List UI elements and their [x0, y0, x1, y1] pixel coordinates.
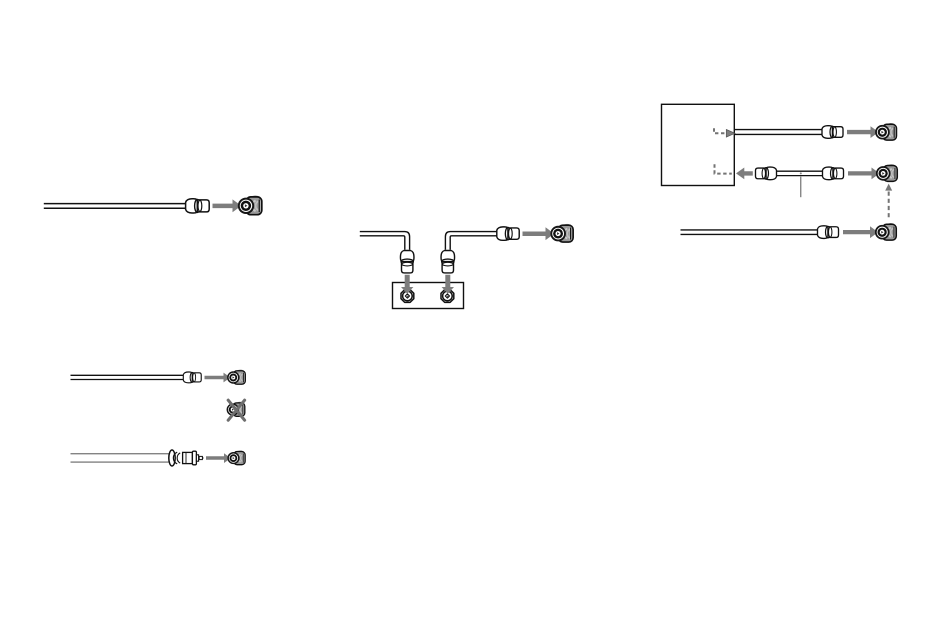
- socket: row 1 socket (top right): [875, 124, 896, 140]
- dashed line: inside box bottom L (top right): [715, 164, 732, 173]
- wire: aerial cable 1 (top left): [44, 204, 186, 209]
- arrow: into box arrow (top right row 2): [736, 168, 753, 180]
- socket: row 2 socket (top right): [876, 165, 897, 181]
- plug: aerial plug 1 (top left): [186, 199, 210, 213]
- arrow: row 2 connect arrow (top right): [848, 168, 880, 180]
- plug: old-style aerial plug (lower left row 3): [169, 450, 204, 466]
- arrow: row 1 connect arrow (top right): [847, 126, 879, 138]
- socket: lower left row 3 socket: [227, 451, 245, 465]
- socket: crossed-out socket (lower left row 2): [227, 402, 245, 416]
- dashed arrow: socket to socket vertical (top right): [885, 184, 892, 219]
- socket: row 3 socket (top right): [875, 224, 896, 240]
- plug: adapter right plug (top right row 2): [823, 167, 844, 180]
- arrow: lower left row 1 connect arrow: [205, 373, 231, 383]
- wire: cable from box (top right row 1): [734, 130, 822, 135]
- jack: right panel jack (middle group): [441, 290, 454, 303]
- wire: right bent cable outer line (middle group): [445, 232, 496, 250]
- wire: long cable (top right row 3): [681, 230, 818, 235]
- wire: adapter cord (top right row 2): [777, 171, 823, 175]
- leader line: adapter callout (top right row 2): [800, 172, 802, 197]
- arrow: right connect arrow (middle group): [523, 227, 555, 240]
- arrow: left down arrow (middle group): [401, 275, 413, 294]
- wire: cable (lower left row 1): [71, 375, 184, 379]
- arrow: right down arrow (middle group): [442, 275, 454, 294]
- plug: row 1 plug (top right): [822, 126, 843, 139]
- plug: row 3 plug (top right): [818, 226, 839, 239]
- plug: right horizontal plug (middle group): [497, 227, 519, 240]
- wire: right bent cable (middle group): [450, 236, 497, 250]
- wire: thick aerial cable (lower left row 3): [71, 454, 172, 462]
- box: head unit box (top right): [662, 104, 735, 185]
- socket: lower left row 1 socket: [227, 370, 245, 384]
- plug: lower left row 1 plug: [183, 372, 201, 383]
- plug: right down plug (middle group): [441, 251, 454, 273]
- dashed arrow: inside box top (top right): [714, 128, 735, 137]
- wire: left bent cable (middle group): [360, 232, 410, 250]
- plug: adapter left plug (top right row 2): [755, 167, 776, 180]
- socket: unit aerial socket 1 (top left): [238, 196, 262, 214]
- plug: left down plug (middle group): [400, 251, 413, 273]
- jack: left panel jack (middle group): [401, 290, 414, 303]
- wire: left bent cable inner line (middle group): [360, 236, 405, 250]
- socket: unit aerial socket (middle group): [550, 225, 573, 242]
- panel: car aerial jack panel (middle group): [393, 283, 464, 309]
- arrow: lower left row 3 connect arrow: [206, 453, 231, 463]
- arrow: connect arrow 1 (top left): [213, 199, 242, 212]
- X mark: not-usable cross (lower left row 2): [228, 400, 244, 420]
- arrow: row 3 connect arrow (top right): [843, 226, 878, 238]
